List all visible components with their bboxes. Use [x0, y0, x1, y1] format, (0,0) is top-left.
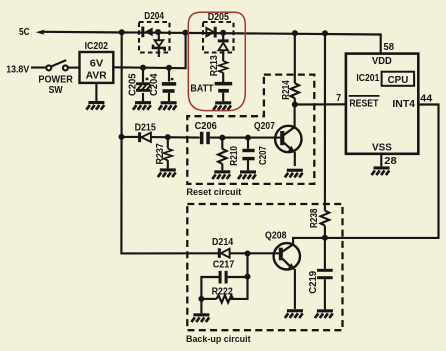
wire: base node down to R222: [229, 254, 247, 299]
resistor R210: [221, 138, 223, 149]
svg-text:D215: D215: [135, 122, 157, 133]
junction: D204 zener tap: [155, 29, 161, 35]
wire: 5C arrow to pin 58 (top rail): [36, 30, 45, 35]
ground (C207): [238, 170, 256, 179]
capacitor C205: [142, 68, 144, 83]
ground (IC202): [95, 83, 97, 101]
svg-text:R237: R237: [155, 143, 166, 165]
switch POWER SW: [46, 65, 51, 70]
back-up circuit dashed box: [187, 204, 342, 330]
svg-text:IC201: IC201: [356, 73, 379, 84]
svg-text:R214: R214: [281, 80, 292, 100]
junction: top rail / R214: [292, 30, 298, 36]
junction: D215 branch: [119, 134, 125, 140]
ground (C204): [159, 101, 177, 110]
junction: top rail / left rail: [119, 29, 125, 35]
cpu IC201: [346, 54, 418, 154]
svg-text:R210: R210: [229, 146, 240, 166]
wire: left vertical rail down to back-up circuit: [121, 32, 218, 253]
ground (VSS pin 28): [372, 166, 390, 175]
svg-text:IC202: IC202: [85, 41, 109, 52]
svg-text:13.8V: 13.8V: [6, 64, 29, 75]
svg-text:C207: C207: [258, 146, 269, 165]
svg-text:5C: 5C: [19, 27, 30, 38]
wire: 6V rail: [113, 33, 185, 68]
junction: C207 tap: [245, 135, 251, 141]
junction: R238/C219/collector node: [322, 235, 328, 241]
capacitor C204: [168, 68, 170, 82]
junction: C217 right: [245, 274, 251, 280]
wire: D214 to Q208 base: [230, 252, 279, 254]
capacitor C207: [247, 138, 249, 149]
svg-text:C219: C219: [308, 270, 319, 293]
ground (C219): [315, 309, 333, 318]
diode (D205 lower): [222, 33, 224, 40]
junction: C205 tap: [140, 65, 146, 71]
svg-text:R238: R238: [309, 208, 320, 228]
ground (R237): [158, 168, 176, 177]
svg-text:7: 7: [336, 93, 341, 104]
junction: C204 tap: [166, 65, 172, 71]
svg-text:VDD: VDD: [372, 56, 392, 67]
svg-text:C204: C204: [149, 73, 160, 96]
svg-text:6V: 6V: [90, 59, 104, 70]
svg-text:Q207: Q207: [254, 121, 275, 132]
capacitor C219: [324, 238, 326, 269]
junction: R210 tap: [219, 135, 225, 141]
reset circuit dashed box: [187, 75, 314, 184]
svg-text:C206: C206: [195, 121, 218, 132]
ground (Q208): [285, 309, 303, 318]
svg-text:SW: SW: [49, 85, 64, 96]
resistor R214: [294, 33, 296, 83]
ground (BATT): [213, 101, 231, 110]
ground (Q207): [285, 169, 303, 178]
svg-text:INT4: INT4: [392, 99, 415, 110]
resistor R213: [219, 61, 228, 73]
svg-text:28: 28: [384, 156, 397, 167]
ground (R210): [212, 170, 230, 179]
svg-text:AVR: AVR: [86, 70, 107, 81]
junction: D205 lower diode tap: [220, 30, 226, 36]
svg-text:CPU: CPU: [388, 75, 409, 86]
svg-text:BATT: BATT: [190, 83, 213, 94]
wire: 13.8V input: [31, 66, 46, 68]
ground (C205): [133, 101, 151, 110]
junction: R222 left / ground: [198, 296, 204, 302]
junction: R237 tap: [165, 134, 171, 140]
svg-text:44: 44: [420, 94, 432, 105]
svg-text:RESET: RESET: [349, 98, 378, 109]
svg-text:Q208: Q208: [265, 231, 287, 242]
pin 28: [380, 154, 382, 167]
wire: INT4 pin 44 loop: [325, 105, 439, 238]
junction: Q208 base node: [245, 251, 251, 257]
ground (R222/C217): [191, 313, 209, 322]
zener (D204 lower): [158, 32, 160, 40]
wire: D215 to C206: [151, 136, 200, 139]
svg-text:C217: C217: [213, 260, 235, 271]
resistor R237: [167, 137, 169, 148]
svg-text:Reset circuit: Reset circuit: [186, 186, 241, 197]
junction: RESET node: [292, 102, 298, 108]
resistor R238: [321, 211, 330, 226]
wire: C206 to Q207 base: [210, 137, 280, 139]
svg-text:D214: D214: [212, 237, 234, 248]
highlight circle (red): [188, 12, 245, 110]
junction: top rail / R238 branch: [322, 30, 328, 36]
wire: rail down to R238: [324, 33, 326, 210]
wire: to RESET pin 7: [295, 103, 346, 105]
svg-text:R213: R213: [209, 55, 220, 76]
svg-text:D204: D204: [144, 11, 164, 22]
svg-text:VSS: VSS: [372, 143, 392, 154]
svg-text:58: 58: [384, 42, 395, 53]
svg-text:Back-up circuit: Back-up circuit: [186, 333, 251, 344]
junction: 6V rail riser on top rail: [182, 30, 188, 36]
svg-text:C205: C205: [128, 73, 139, 96]
